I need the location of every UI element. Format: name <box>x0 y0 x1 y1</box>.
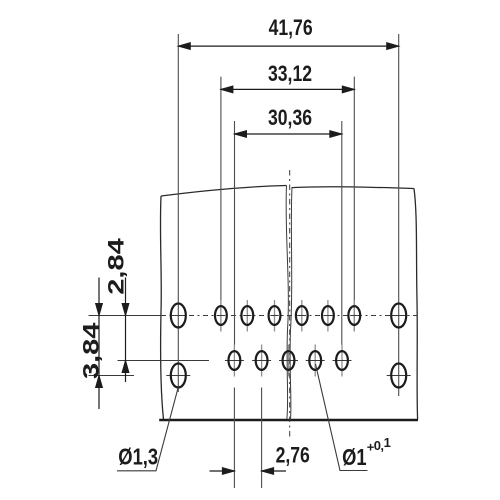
dimension line 2,84 (vertical) <box>122 278 129 383</box>
vertical center line (dash-dot) <box>289 170 291 440</box>
dimension line 33,12 <box>221 86 354 93</box>
svg-text:30,36: 30,36 <box>268 106 312 130</box>
extension line 41,76 right <box>398 34 400 396</box>
svg-text:2,76: 2,76 <box>276 444 310 468</box>
hole large bottom-right <box>391 364 406 388</box>
plate right edge <box>414 189 418 420</box>
gray tick marks: bottom row holes <box>234 345 342 377</box>
dimension line 2,76 with outside arrows <box>210 468 287 475</box>
svg-text:2,84: 2,84 <box>102 238 128 295</box>
leader line for hole dia 1 <box>316 364 368 471</box>
extension line 33,12 right <box>353 77 355 331</box>
dimension line 41,76 <box>178 43 398 50</box>
extension line 2,76 left below plate <box>233 388 235 489</box>
svg-text:3,84: 3,84 <box>77 322 103 379</box>
break line left <box>286 186 288 420</box>
break line right <box>290 188 292 420</box>
svg-text:Ø1,3: Ø1,3 <box>118 444 158 469</box>
gray tick marks: top row holes <box>221 300 354 332</box>
dimension line 30,36 <box>235 131 342 138</box>
holes small row1 <box>215 306 360 325</box>
hole large top-left <box>171 304 186 328</box>
horizontal ticks through holes row1 <box>171 315 406 317</box>
extension line row2 <box>118 360 210 362</box>
svg-text:+0,1: +0,1 <box>367 435 391 454</box>
svg-text:33,12: 33,12 <box>268 62 312 86</box>
plate bottom edge <box>159 419 418 421</box>
extension line 30,36 right <box>341 121 343 345</box>
plate left edge <box>160 196 163 420</box>
leader line for hole dia 1,3 <box>117 387 178 471</box>
extension line left row1 (solid) <box>89 315 162 317</box>
hole large top-right <box>391 304 406 328</box>
dimension line 3,84 (vertical) <box>96 278 103 410</box>
extension line bottom large holes <box>89 375 135 377</box>
extension line 41,76 left <box>177 34 179 392</box>
horizontal ticks through holes row2 <box>166 361 410 376</box>
plate top edge <box>161 186 287 197</box>
extension line 33,12 left <box>220 77 222 331</box>
extension line 2,76 right below plate <box>261 388 263 489</box>
holes small row2 <box>229 351 348 370</box>
extension line 30,36 left <box>234 121 236 345</box>
svg-text:Ø1: Ø1 <box>342 445 367 471</box>
horizontal center line row 1 (dash-dot) <box>161 315 418 317</box>
svg-text:41,76: 41,76 <box>269 16 313 40</box>
hole large bottom-left <box>171 364 186 388</box>
